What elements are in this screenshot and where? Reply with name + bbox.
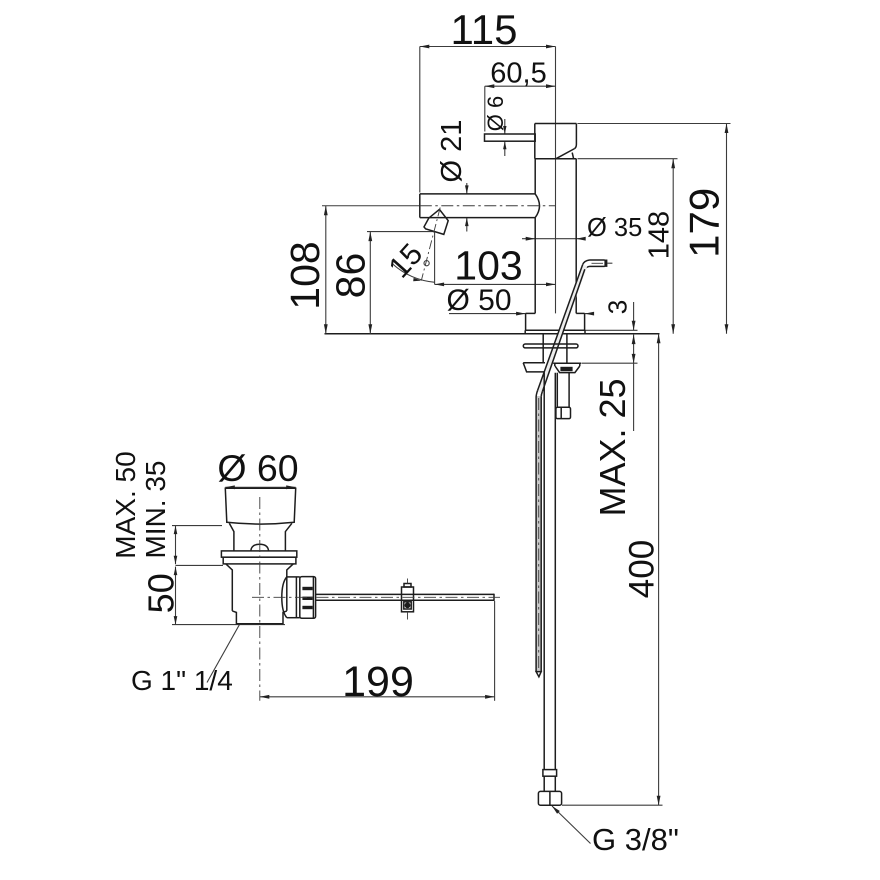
svg-text:179: 179 [680,188,727,258]
svg-text:115: 115 [451,6,518,53]
svg-text:G 3/8": G 3/8" [592,822,679,857]
svg-text:Ø 35: Ø 35 [587,214,642,242]
svg-text:Ø 21: Ø 21 [436,120,468,183]
svg-text:108: 108 [282,241,328,309]
svg-text:148: 148 [644,211,676,259]
svg-text:G 1" 1/4: G 1" 1/4 [131,665,233,696]
svg-text:50: 50 [141,573,182,613]
svg-text:Ø 6: Ø 6 [483,96,508,131]
svg-text:MAX. 50: MAX. 50 [110,451,141,558]
svg-text:MIN. 35: MIN. 35 [140,460,171,558]
svg-text:Ø 50: Ø 50 [446,284,511,317]
svg-text:400: 400 [623,540,662,598]
svg-text:MAX. 25: MAX. 25 [592,378,633,516]
svg-text:Ø 60: Ø 60 [217,447,298,489]
svg-text:199: 199 [342,658,414,706]
svg-text:3: 3 [603,300,633,314]
svg-text:60,5: 60,5 [490,58,546,90]
svg-text:103: 103 [454,243,522,289]
svg-text:86: 86 [328,253,374,299]
